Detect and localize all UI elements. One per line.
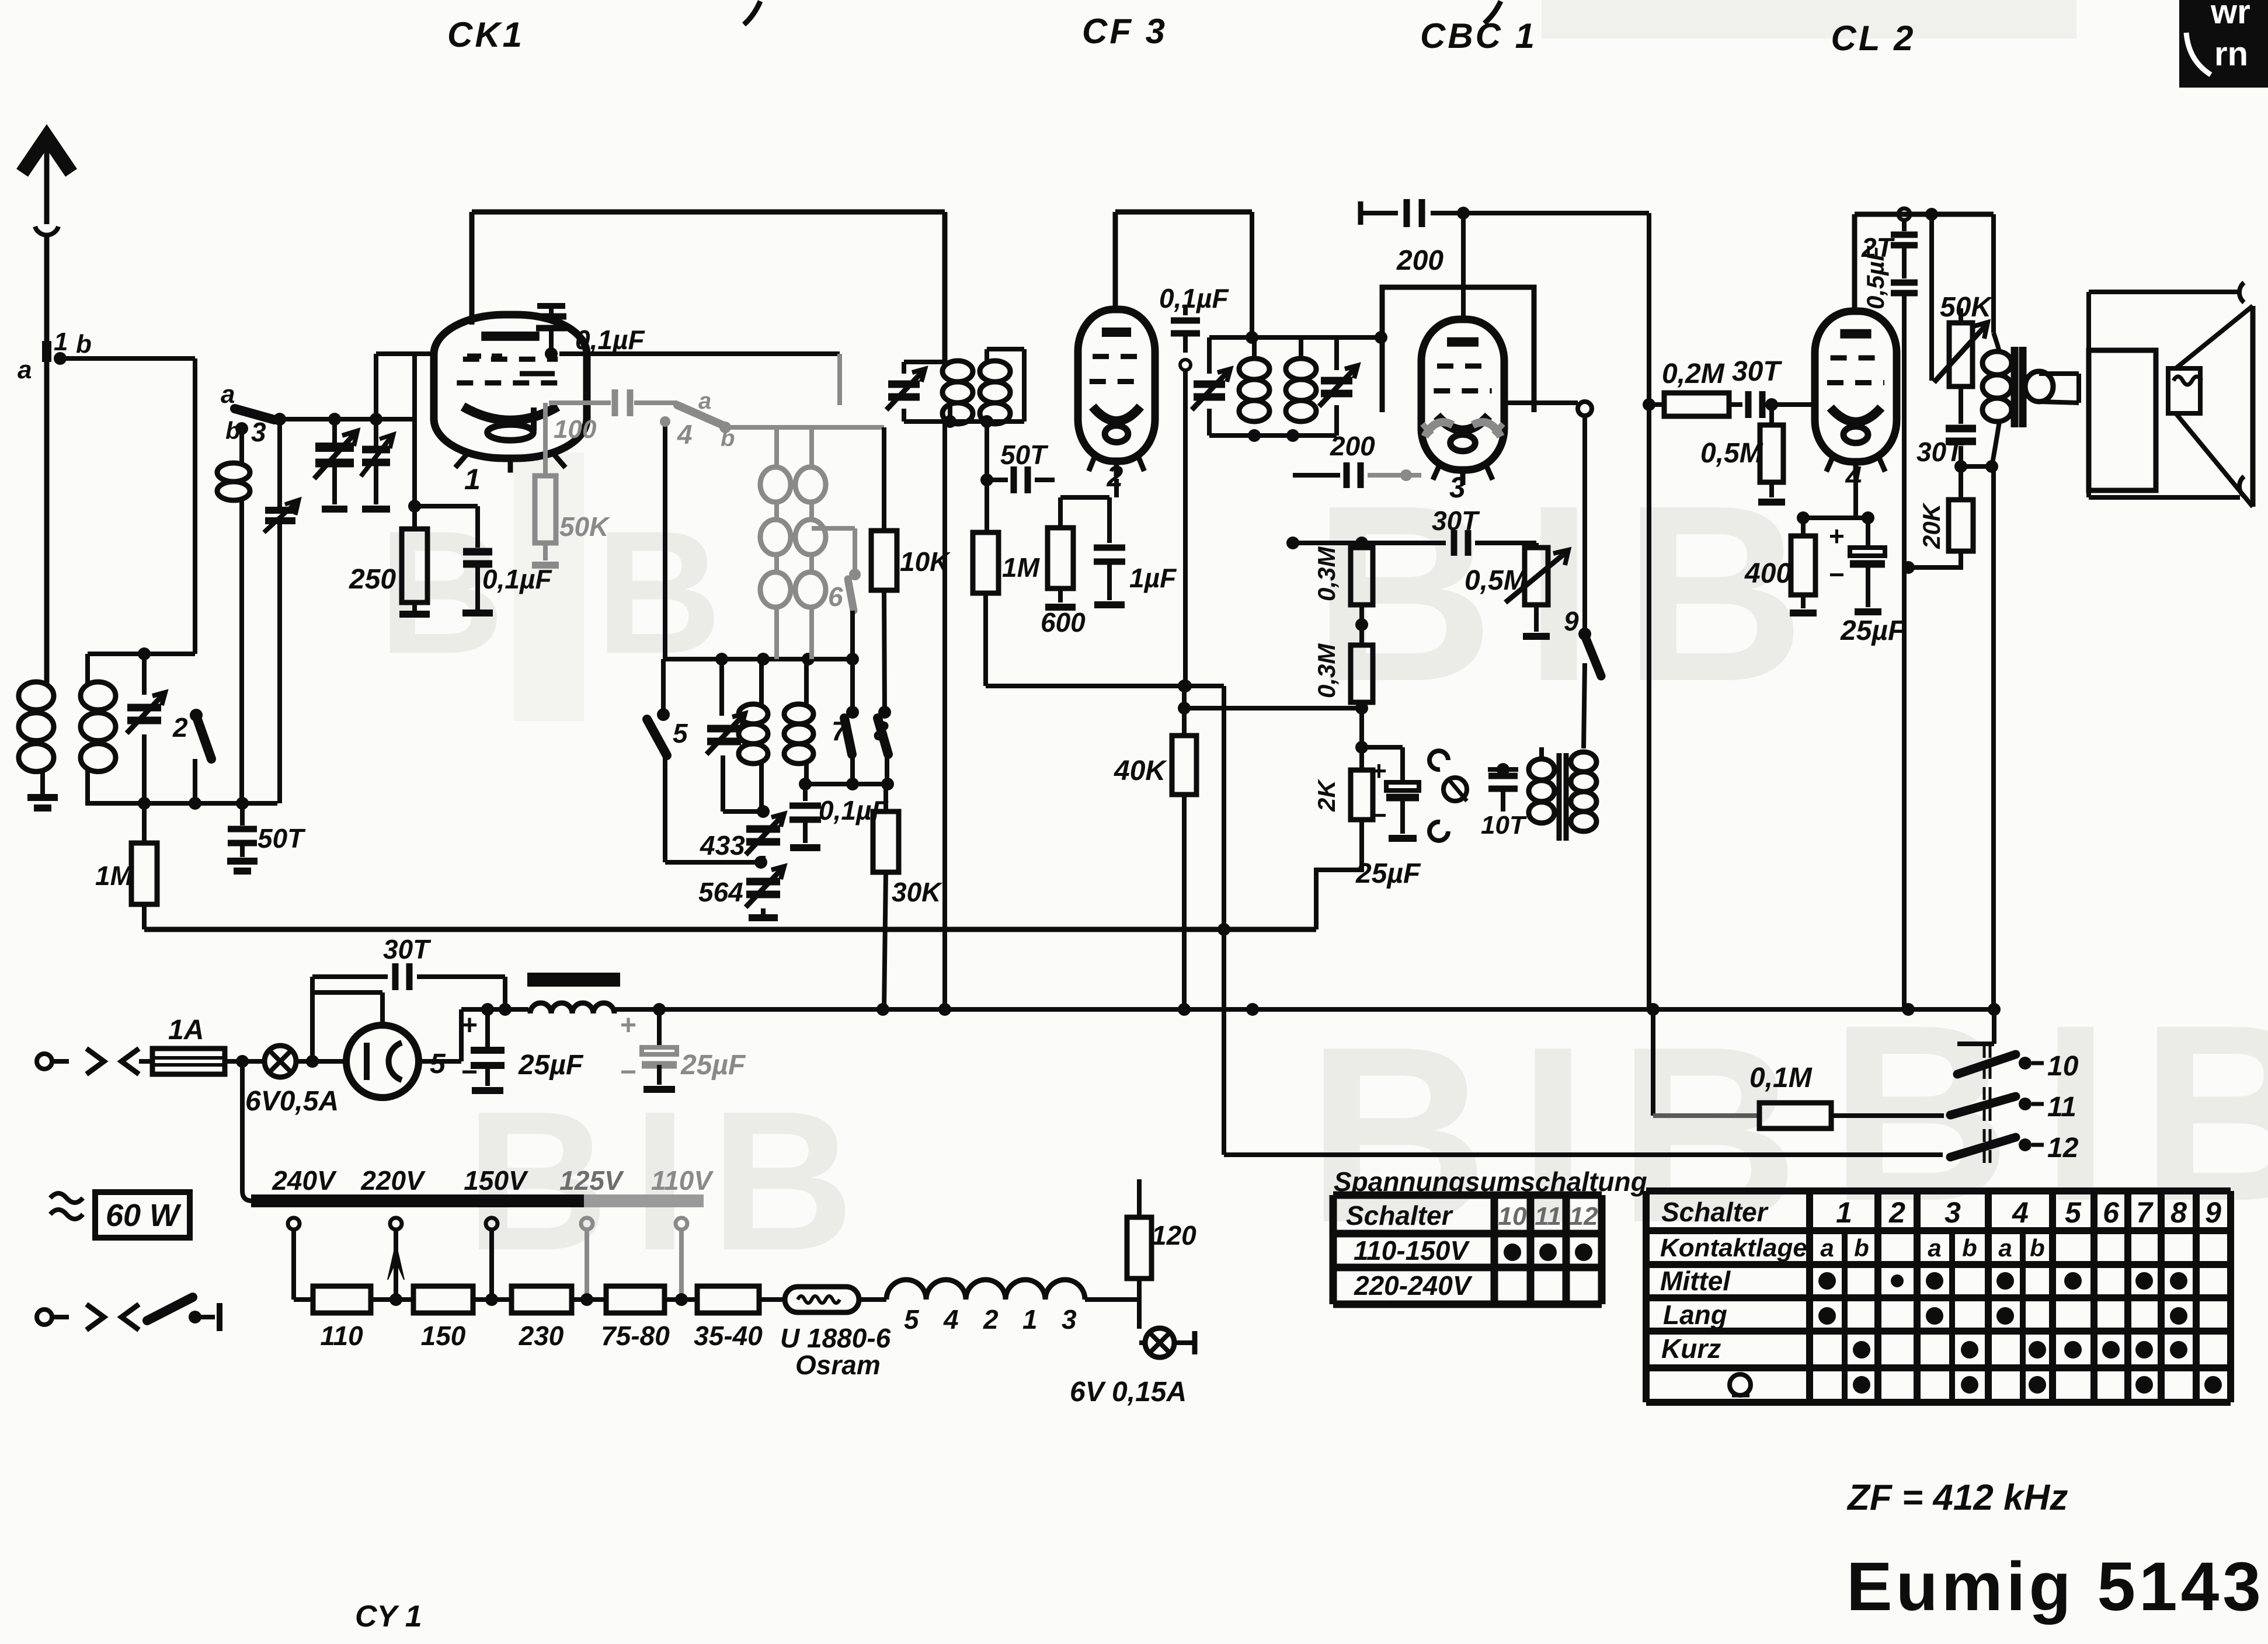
svg-text:4: 4 bbox=[2012, 1196, 2029, 1229]
svg-text:25µF: 25µF bbox=[1355, 858, 1421, 889]
svg-text:6V0,5A: 6V0,5A bbox=[245, 1086, 339, 1117]
svg-text:40K: 40K bbox=[1114, 755, 1167, 786]
svg-text:a: a bbox=[18, 356, 32, 384]
svg-text:11: 11 bbox=[1535, 1202, 1561, 1231]
svg-text:75-80: 75-80 bbox=[601, 1321, 670, 1351]
svg-text:−: − bbox=[1371, 800, 1387, 830]
svg-text:b: b bbox=[1854, 1234, 1869, 1262]
svg-text:2: 2 bbox=[1888, 1196, 1905, 1229]
svg-text:600: 600 bbox=[1041, 607, 1086, 638]
svg-text:0,1µF: 0,1µF bbox=[1159, 283, 1229, 314]
svg-text:Schalter: Schalter bbox=[1661, 1197, 1769, 1227]
svg-text:BIB: BIB bbox=[1313, 454, 1835, 734]
svg-text:150V: 150V bbox=[464, 1165, 528, 1196]
svg-text:0,2M: 0,2M bbox=[1662, 358, 1725, 389]
svg-text:−: − bbox=[461, 1057, 478, 1088]
svg-text:wr: wr bbox=[2210, 0, 2250, 31]
svg-text:CF 3: CF 3 bbox=[1082, 12, 1167, 51]
svg-text:a: a bbox=[1998, 1234, 2012, 1262]
svg-text:20K: 20K bbox=[1918, 502, 1945, 549]
svg-text:CK1: CK1 bbox=[447, 15, 524, 54]
svg-text:1M: 1M bbox=[1002, 552, 1041, 583]
svg-text:150: 150 bbox=[421, 1321, 466, 1351]
svg-text:Kurz: Kurz bbox=[1661, 1333, 1721, 1364]
svg-text:b: b bbox=[1962, 1234, 1977, 1262]
svg-text:2K: 2K bbox=[1313, 779, 1340, 812]
svg-text:30T: 30T bbox=[1732, 356, 1782, 387]
svg-text:25µF: 25µF bbox=[1840, 615, 1906, 646]
svg-text:12: 12 bbox=[1570, 1202, 1598, 1231]
svg-text:9: 9 bbox=[1564, 606, 1579, 636]
svg-text:Schalter: Schalter bbox=[1346, 1200, 1453, 1231]
svg-text:200: 200 bbox=[1330, 431, 1375, 461]
svg-text:7: 7 bbox=[832, 716, 848, 746]
svg-text:+: + bbox=[620, 1010, 636, 1041]
svg-text:8: 8 bbox=[874, 716, 889, 746]
svg-text:4: 4 bbox=[1845, 461, 1862, 493]
svg-text:25µF: 25µF bbox=[518, 1050, 584, 1081]
svg-text:b: b bbox=[225, 417, 241, 444]
svg-text:110-150V: 110-150V bbox=[1354, 1235, 1470, 1266]
svg-text:433: 433 bbox=[700, 830, 745, 861]
svg-text:6V 0,15A: 6V 0,15A bbox=[1070, 1377, 1187, 1408]
svg-text:220-240V: 220-240V bbox=[1354, 1270, 1473, 1301]
svg-text:0,1M: 0,1M bbox=[1749, 1063, 1813, 1093]
svg-text:0,1µF: 0,1µF bbox=[575, 325, 645, 355]
svg-text:30T: 30T bbox=[1432, 506, 1480, 536]
svg-text:rn: rn bbox=[2214, 35, 2248, 73]
svg-text:Osram: Osram bbox=[795, 1350, 881, 1380]
svg-text:5: 5 bbox=[904, 1304, 920, 1335]
svg-text:10: 10 bbox=[2047, 1051, 2079, 1082]
svg-text:230: 230 bbox=[519, 1321, 564, 1351]
svg-text:1: 1 bbox=[54, 328, 68, 356]
svg-text:U 1880-6: U 1880-6 bbox=[780, 1323, 891, 1353]
svg-text:5: 5 bbox=[673, 718, 688, 748]
svg-text:400: 400 bbox=[1744, 558, 1792, 589]
svg-text:250: 250 bbox=[349, 564, 396, 595]
svg-text:0,1µF: 0,1µF bbox=[482, 564, 552, 594]
svg-text:3: 3 bbox=[1945, 1196, 1961, 1229]
svg-text:a: a bbox=[221, 380, 235, 409]
svg-text:60 W: 60 W bbox=[106, 1198, 182, 1233]
svg-text:0,5M: 0,5M bbox=[1700, 438, 1763, 469]
svg-text:120: 120 bbox=[1152, 1220, 1196, 1251]
svg-text:+: + bbox=[1829, 521, 1845, 551]
svg-text:b: b bbox=[2030, 1234, 2045, 1262]
svg-text:6: 6 bbox=[2103, 1196, 2120, 1229]
svg-text:5: 5 bbox=[430, 1049, 446, 1079]
svg-text:125V: 125V bbox=[559, 1165, 624, 1196]
svg-text:7: 7 bbox=[2136, 1196, 2154, 1229]
svg-text:110: 110 bbox=[320, 1321, 363, 1351]
svg-text:10T: 10T bbox=[1481, 811, 1527, 840]
svg-text:−: − bbox=[620, 1057, 636, 1088]
svg-text:a: a bbox=[1928, 1234, 1941, 1262]
svg-text:6: 6 bbox=[828, 581, 843, 612]
svg-text:1: 1 bbox=[1022, 1304, 1038, 1335]
svg-text:8: 8 bbox=[2170, 1196, 2187, 1229]
svg-text:0,3M: 0,3M bbox=[1313, 546, 1340, 601]
svg-text:100: 100 bbox=[554, 415, 597, 444]
svg-text:1A: 1A bbox=[168, 1015, 204, 1046]
svg-text:12: 12 bbox=[2047, 1133, 2079, 1164]
svg-text:0,3M: 0,3M bbox=[1313, 643, 1340, 698]
svg-text:1M: 1M bbox=[95, 861, 134, 891]
svg-text:10: 10 bbox=[1498, 1202, 1527, 1231]
svg-text:25µF: 25µF bbox=[680, 1050, 746, 1081]
svg-text:200: 200 bbox=[1396, 245, 1443, 276]
svg-text:ZF = 412 kHz: ZF = 412 kHz bbox=[1846, 1478, 2068, 1518]
svg-text:Lang: Lang bbox=[1663, 1300, 1727, 1330]
svg-text:50K: 50K bbox=[1940, 292, 1993, 323]
svg-text:2: 2 bbox=[983, 1304, 999, 1335]
svg-text:9: 9 bbox=[2205, 1196, 2221, 1229]
svg-text:3: 3 bbox=[251, 417, 266, 447]
svg-text:1: 1 bbox=[1836, 1196, 1852, 1229]
svg-text:a: a bbox=[1820, 1234, 1834, 1262]
svg-text:50T: 50T bbox=[1000, 440, 1049, 470]
svg-text:+: + bbox=[1371, 755, 1387, 786]
svg-text:35-40: 35-40 bbox=[694, 1321, 763, 1351]
svg-text:50T: 50T bbox=[258, 823, 306, 854]
svg-text:1µF: 1µF bbox=[1129, 563, 1177, 593]
svg-text:Mittel: Mittel bbox=[1660, 1266, 1731, 1296]
svg-text:2: 2 bbox=[172, 712, 188, 743]
svg-text:CBC 1: CBC 1 bbox=[1420, 16, 1537, 55]
svg-text:240V: 240V bbox=[272, 1165, 337, 1196]
svg-text:4: 4 bbox=[677, 419, 693, 450]
svg-text:−: − bbox=[1829, 559, 1845, 590]
svg-text:5: 5 bbox=[2065, 1196, 2082, 1229]
svg-text:1: 1 bbox=[464, 463, 481, 496]
svg-text:Eumig 5143: Eumig 5143 bbox=[1846, 1548, 2264, 1625]
svg-text:CY 1: CY 1 bbox=[355, 1600, 422, 1633]
svg-text:30K: 30K bbox=[892, 877, 942, 907]
svg-text:3: 3 bbox=[1449, 471, 1466, 504]
svg-text:0,5µF: 0,5µF bbox=[1862, 245, 1889, 309]
svg-text:Kontaktlage: Kontaktlage bbox=[1660, 1234, 1807, 1262]
svg-text:30T: 30T bbox=[383, 934, 432, 964]
svg-text:+: + bbox=[461, 1010, 478, 1041]
svg-text:CL 2: CL 2 bbox=[1831, 19, 1916, 58]
svg-text:0,5M: 0,5M bbox=[1465, 565, 1528, 596]
svg-text:3: 3 bbox=[1062, 1304, 1077, 1335]
svg-text:110V: 110V bbox=[651, 1165, 714, 1196]
svg-text:b: b bbox=[76, 330, 92, 358]
svg-text:11: 11 bbox=[2047, 1092, 2076, 1123]
svg-text:a: a bbox=[698, 388, 711, 414]
svg-text:564: 564 bbox=[698, 877, 743, 907]
svg-text:220V: 220V bbox=[360, 1165, 426, 1196]
svg-text:4: 4 bbox=[943, 1304, 959, 1335]
svg-text:50K: 50K bbox=[559, 511, 610, 542]
